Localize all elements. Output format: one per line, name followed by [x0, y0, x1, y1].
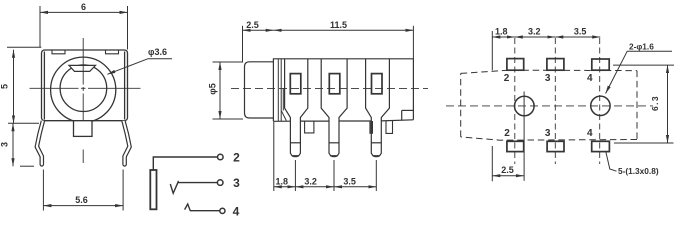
svg-text:3: 3 [233, 176, 240, 190]
terminal circle 2 [218, 154, 224, 160]
dimension 2.5 top [243, 20, 274, 62]
dimension 3 left [0, 123, 34, 166]
sleeve contact rectangle [150, 170, 156, 209]
svg-text:φ3.6: φ3.6 [148, 47, 167, 57]
svg-text:2: 2 [233, 151, 240, 165]
dimension 6.3 right [613, 65, 674, 143]
contact tower / pin 2 [321, 59, 347, 157]
svg-text:2.5: 2.5 [501, 165, 514, 175]
svg-text:5.6: 5.6 [75, 195, 88, 205]
svg-text:6: 6 [81, 2, 86, 12]
wire to pin 3 (tip contact) [170, 182, 217, 194]
wire to pin 4 (switch) [185, 204, 220, 211]
inner circle phi3.6 [60, 65, 107, 112]
step notch right of pin 1 [305, 121, 314, 133]
svg-text:3.5: 3.5 [343, 176, 356, 186]
svg-text:3: 3 [0, 142, 10, 147]
svg-text:2-φ1.6: 2-φ1.6 [629, 42, 654, 52]
terminal circle 3 [217, 180, 223, 186]
bottom dims 1.8 3.2 3.5 [274, 121, 377, 191]
lower ext of 492.3 [491, 146, 493, 181]
dimension 5 left [0, 47, 41, 123]
barrel [245, 62, 274, 118]
svg-text:5: 5 [0, 84, 10, 89]
centerline vertical [82, 38, 84, 163]
jack body front [42, 50, 128, 121]
svg-text:3: 3 [545, 73, 551, 84]
outer circle [51, 57, 116, 122]
svg-text:2.5: 2.5 [246, 20, 259, 30]
dimension phi5 left [208, 62, 244, 119]
svg-text:3.5: 3.5 [574, 26, 587, 36]
hole left [515, 96, 535, 116]
bottom tab [74, 121, 93, 137]
svg-text:2: 2 [504, 128, 510, 139]
dashed centerline [446, 105, 653, 107]
svg-text:11.5: 11.5 [330, 20, 347, 30]
svg-text:6.3: 6.3 [650, 95, 660, 111]
contact tower / pin 1 [285, 59, 308, 157]
svg-text:4: 4 [587, 73, 593, 84]
contact hole 1 [290, 74, 301, 94]
wire to pin 2 [153, 157, 217, 170]
label 5-(1.3x0.8) with leader [606, 152, 659, 177]
pads bottom row [507, 141, 610, 151]
svg-text:2: 2 [504, 73, 510, 84]
svg-text:3.2: 3.2 [304, 176, 317, 186]
svg-text:1.8: 1.8 [275, 176, 288, 186]
contact hole 2 [329, 74, 340, 94]
centerline horizontal [30, 87, 141, 89]
dark step left of pin 3 [370, 121, 373, 133]
left leg [35, 121, 45, 166]
contact tower / pin 3 [366, 59, 390, 157]
label 2-phi1.6 with leader [606, 42, 672, 94]
top dims 1.8 3.2 3.5 [492, 26, 600, 70]
svg-text:φ5: φ5 [208, 83, 218, 94]
svg-text:3.2: 3.2 [528, 26, 541, 36]
body outline dashed [461, 70, 637, 140]
body outline [273, 59, 413, 122]
internal vertical lines [278, 59, 286, 121]
key notch [69, 65, 96, 71]
step right of pin 3 [386, 121, 393, 133]
dashed centerline [231, 88, 428, 90]
top tab right [106, 50, 119, 53]
top tab left [52, 50, 65, 53]
dimension 11.5 top [274, 20, 414, 59]
svg-text:1.8: 1.8 [495, 26, 508, 36]
dimension 2.5 bottom [492, 165, 524, 176]
svg-text:4: 4 [233, 205, 240, 219]
svg-text:3: 3 [545, 128, 551, 139]
hole right [591, 96, 610, 115]
dimension 6 top [40, 2, 128, 50]
label phi3.6 with leader [107, 47, 172, 74]
dimension 5.6 bottom [43, 170, 123, 211]
svg-text:4: 4 [587, 128, 593, 139]
terminal circle 4 [220, 208, 225, 213]
right leg [122, 121, 132, 166]
pads top row [507, 59, 609, 71]
contact hole 3 [372, 74, 383, 94]
dashed column lines [515, 38, 600, 164]
svg-text:5-(1.3x0.8): 5-(1.3x0.8) [618, 166, 659, 176]
solid line through left hole (2.5 ext) [523, 92, 525, 181]
